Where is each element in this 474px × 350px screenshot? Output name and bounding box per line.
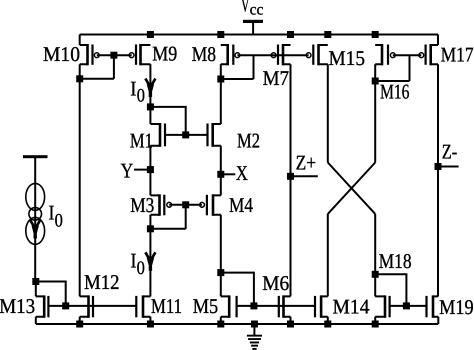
svg-text:M19: M19	[439, 295, 474, 319]
wire M16 drain tie	[375, 80, 409, 82]
transistor M5	[221, 295, 237, 317]
transistor M8	[221, 44, 240, 65]
svg-text:M17: M17	[441, 42, 474, 66]
node Y junction	[147, 166, 154, 173]
top rail Vcc net	[80, 34, 438, 36]
wire M15 drain down	[327, 64, 329, 162]
svg-text:M15: M15	[329, 46, 366, 70]
wire gate net M16-M17	[393, 54, 422, 56]
wire cross diagonal 1	[328, 163, 375, 214]
svg-text:M2: M2	[237, 128, 260, 152]
junction rail M18	[372, 321, 379, 328]
Vcc supply symbol	[243, 20, 263, 35]
svg-text:0: 0	[137, 85, 145, 106]
wire M19 source to rail	[437, 317, 439, 324]
svg-text:X: X	[236, 161, 248, 185]
junction M3/M4 gate	[182, 201, 189, 208]
current source I0 (two ellipses + circle)	[26, 183, 45, 244]
junction rail M9	[147, 31, 154, 38]
node bias / M13 drain junction	[32, 278, 39, 285]
transistor M15	[306, 44, 328, 65]
transistor M4	[200, 194, 221, 216]
wire M6 source to rail	[290, 317, 292, 324]
wire M17 drain down to M19	[437, 64, 439, 296]
wire to M1/M2 gates	[150, 107, 185, 135]
svg-text:0: 0	[55, 210, 63, 231]
wire M14 source to rail	[327, 317, 329, 324]
wire gate net M18-M19	[390, 305, 427, 307]
transistor M1	[150, 123, 165, 147]
wire M16 diode tie down	[409, 55, 411, 81]
wire M8 drain down to M2	[220, 64, 222, 124]
wire M10-M9 gate net	[97, 54, 132, 56]
wire gate net M8-M7-M15	[237, 54, 308, 56]
svg-text:M18: M18	[379, 249, 412, 273]
transistor M9	[129, 44, 150, 65]
wire to M13 drain	[35, 282, 37, 297]
junction M9 drain / M1	[147, 103, 154, 110]
svg-text:Y: Y	[121, 158, 134, 182]
wire Z- stub	[438, 166, 459, 168]
current source arrow	[30, 220, 40, 239]
wire M8 drain tie	[221, 78, 254, 80]
bottom rail ground net	[36, 323, 439, 325]
transistor M3	[150, 194, 171, 216]
wire rail to M17 drain	[437, 35, 439, 46]
wire Y stub	[134, 169, 150, 171]
junction M13 gate	[62, 302, 69, 309]
transistor M14	[315, 295, 328, 317]
wire M7 drain down to M6	[290, 64, 292, 296]
wire M16 drain down to cross	[374, 64, 376, 162]
ground symbol	[247, 324, 262, 350]
arrow I0 (lower)	[145, 252, 155, 270]
wire X stub	[221, 173, 236, 175]
junction rail M7	[287, 31, 294, 38]
arrow I0 (upper)	[145, 79, 155, 98]
junction rail M12	[76, 321, 83, 328]
junction rail M11	[147, 321, 154, 328]
svg-text:M7: M7	[263, 66, 290, 90]
transistor M6	[279, 295, 291, 317]
junction M3 drain	[147, 225, 154, 232]
wire gate net M5-M6-M14	[237, 305, 315, 307]
wire M13 source to rail	[35, 317, 37, 324]
svg-text:M6: M6	[262, 271, 289, 295]
junction M16 drain	[372, 78, 379, 85]
svg-text:I: I	[130, 76, 136, 100]
wire M18 diode tie	[375, 274, 406, 306]
node X junction	[217, 171, 224, 178]
wire M18 source to rail	[374, 317, 376, 324]
transistor M13	[36, 295, 49, 317]
wire Z+ stub	[291, 175, 318, 177]
node Z- junction	[435, 163, 442, 170]
svg-text:0: 0	[137, 258, 145, 279]
wire cross to M14 drain	[327, 214, 329, 297]
wire M5 diode tie	[221, 273, 254, 306]
junction M8 drain	[217, 76, 224, 83]
junction rail M5	[217, 321, 224, 328]
wire M3 drain down to M11	[149, 215, 151, 297]
svg-text:M16: M16	[380, 79, 410, 103]
svg-text:M8: M8	[192, 42, 217, 66]
junction M1/M2 gate	[182, 131, 189, 138]
node Z+ junction	[287, 173, 294, 180]
junction M18 drain	[372, 271, 379, 278]
wire M1-M2 gate net	[165, 134, 208, 136]
wire cross to M18 drain	[374, 214, 376, 297]
junction rail M6	[287, 321, 294, 328]
wire M11 source to rail	[149, 317, 151, 324]
svg-text:M3: M3	[130, 193, 154, 217]
wire M3-M4 gate net	[169, 204, 202, 206]
svg-text:M11: M11	[151, 294, 182, 318]
wire M4 drain down to M5	[220, 215, 222, 297]
transistor M7	[271, 44, 290, 65]
wire cross diagonal 2	[328, 163, 375, 214]
wire M12 source to rail	[79, 317, 81, 324]
svg-text:M4: M4	[229, 193, 253, 217]
wire M10 drain down to M12	[79, 64, 81, 296]
junction rail ground	[251, 321, 258, 328]
junction M5 gate	[250, 302, 257, 309]
wire M1 source to M3	[149, 146, 151, 196]
wire M3 drain tie	[150, 228, 185, 230]
transistor M2	[208, 123, 221, 147]
junction gate net M10/M9	[110, 52, 117, 59]
wire rail to M10 drain	[79, 35, 81, 46]
transistor M19	[427, 295, 439, 317]
wire M10 drain tie	[80, 78, 114, 80]
svg-text:M13: M13	[0, 294, 35, 318]
wire supply bar to current source to node	[34, 158, 36, 282]
wire M2 source to M4	[220, 146, 222, 196]
supply bar terminal (left)	[23, 155, 48, 158]
transistor M18	[375, 295, 389, 317]
svg-text:Z+: Z+	[296, 151, 317, 175]
transistor M11	[136, 295, 150, 317]
svg-text:M14: M14	[333, 295, 370, 319]
wire M9 drain down to M1	[149, 64, 151, 124]
junction rail M16	[372, 31, 379, 38]
transistor M17	[419, 44, 438, 65]
svg-text:M9: M9	[152, 41, 177, 65]
junction M10 drain	[76, 75, 83, 82]
svg-text:V: V	[241, 0, 250, 17]
svg-text:M12: M12	[84, 270, 120, 294]
wire M13 diode connection	[36, 282, 66, 306]
wire M8 diode tie down	[253, 55, 255, 79]
junction rail M15	[324, 31, 331, 38]
svg-text:M5: M5	[193, 294, 219, 318]
wire gate to drain tie	[113, 55, 115, 79]
wire M3 diode tie	[185, 205, 187, 229]
transistor M12	[80, 295, 93, 317]
junction M18/M19 gate	[403, 302, 410, 309]
wire M5 source to rail	[220, 317, 222, 324]
svg-text:M10: M10	[43, 42, 80, 66]
transistor M10	[80, 44, 100, 65]
junction M5 drain	[217, 269, 224, 276]
transistor M16	[375, 44, 395, 65]
junction rail M14	[324, 321, 331, 328]
wire gate net M13-M12-M11	[48, 305, 136, 307]
svg-text:cc: cc	[250, 2, 264, 19]
svg-text:Z-: Z-	[442, 139, 458, 163]
junction rail M8	[217, 31, 224, 38]
